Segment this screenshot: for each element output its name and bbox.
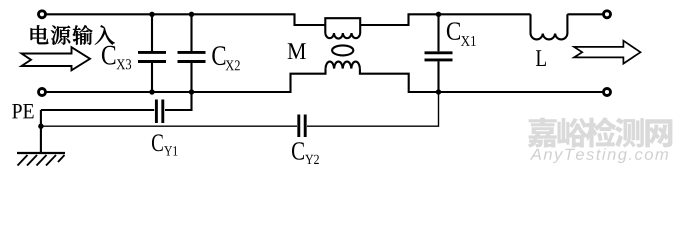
capacitor CX3 bottom lead <box>151 63 153 92</box>
junction dot CX1 top <box>436 12 441 17</box>
node L-in (top-left terminal) <box>39 11 46 18</box>
label L <box>536 50 546 66</box>
wire PE line: PE to CY2 left plate <box>41 125 297 127</box>
ground bar <box>17 152 65 154</box>
ground hatches <box>18 155 65 166</box>
wire top rail: L to output terminal <box>567 13 602 15</box>
capacitor CX2 plates <box>178 52 206 61</box>
junction dot CX3 top <box>149 12 154 17</box>
label CX3 <box>102 46 115 65</box>
wire bottom rail: input terminal to M bottom winding <box>46 69 326 92</box>
node L-out (top-right terminal) <box>604 11 611 18</box>
capacitor CY2 plates <box>299 115 305 138</box>
core of common-mode choke M (ellipse) <box>332 45 353 55</box>
label CY1 <box>152 134 163 151</box>
wire bottom rail: M to output terminal <box>360 69 603 92</box>
capacitor CY1 plates <box>156 100 162 124</box>
capacitor CX2 top lead <box>190 14 192 51</box>
wire CY1 right plate up to bottom rail <box>165 92 192 110</box>
output arrow (hollow) <box>574 41 641 64</box>
inductor M top winding (box with scalloped bottom) <box>325 18 360 38</box>
capacitor CX1 plates <box>425 53 453 60</box>
PE stub vertical <box>40 110 42 152</box>
wire CY2 right plate up to bottom rail <box>307 92 439 126</box>
junction dot CX1 bottom / CY2 branch <box>436 89 441 94</box>
label 电源输入 (power input) <box>31 25 115 45</box>
label PE <box>12 104 33 118</box>
wire top rail: M to L, with node dot for CX1 <box>360 14 530 25</box>
watermark AnyTesting.com <box>530 148 668 163</box>
wire CY1 line: PE stub to CY1 left plate <box>41 109 154 111</box>
junction dot CX3 bottom <box>149 89 154 94</box>
label CY2 <box>292 142 304 160</box>
junction dot CX2 top <box>189 12 194 17</box>
input arrow (hollow) <box>22 47 91 70</box>
inductor L (3 downward arcs) <box>531 14 568 39</box>
watermark 嘉峪检测网 <box>528 117 673 148</box>
capacitor CX3 top lead <box>151 14 153 51</box>
junction dot CX2 bottom / CY1 branch <box>189 89 194 94</box>
label M <box>288 43 306 59</box>
capacitor CX1 bottom lead <box>437 61 439 92</box>
junction dot PE <box>38 124 43 129</box>
capacitor CX3 plates <box>138 52 166 61</box>
node N-out (bottom-right terminal) <box>604 89 611 96</box>
wire top rail: input terminal to M top winding <box>46 14 325 25</box>
label CX1 <box>447 22 460 40</box>
node N-in (bottom-left terminal) <box>39 89 46 96</box>
inductor M bottom winding (4 upward humps) <box>326 62 360 69</box>
capacitor CX1 top lead <box>437 14 439 51</box>
capacitor CX2 bottom lead <box>190 63 192 92</box>
label CX2 <box>212 46 225 65</box>
